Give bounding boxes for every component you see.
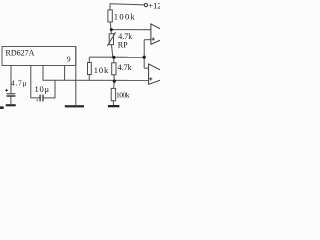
svg-text:+12: +12	[148, 1, 160, 11]
svg-text:100k: 100k	[116, 91, 130, 100]
svg-text:10k: 10k	[94, 65, 109, 75]
svg-text:9: 9	[67, 54, 71, 63]
svg-text:RP: RP	[118, 40, 128, 49]
svg-text:4.7μ: 4.7μ	[11, 78, 27, 87]
svg-text:100k: 100k	[114, 11, 136, 21]
svg-text:RD627A: RD627A	[6, 49, 35, 58]
svg-text:10μ: 10μ	[35, 84, 50, 94]
svg-text:4.7k: 4.7k	[118, 63, 132, 72]
